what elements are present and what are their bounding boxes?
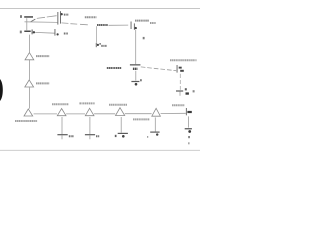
- dark blob at bus row transformer: [187, 111, 191, 113]
- label F far right of ground R: [193, 90, 195, 92]
- label above T5: [79, 102, 94, 104]
- load triangle T4: [57, 109, 66, 116]
- label F above blob R: [185, 88, 187, 90]
- label r left of G6: [115, 135, 117, 137]
- label F below vC end: [101, 45, 106, 47]
- dashed wire T1 out seg2: [70, 23, 77, 25]
- label 10MVA F: [97, 24, 108, 26]
- node R dark mark a: [179, 67, 182, 69]
- transformer T1 bar a: [56, 12, 59, 25]
- wire vA node A down: [26, 18, 28, 30]
- node M bus bar: [130, 64, 141, 65]
- wire vF dashed seg3: [179, 86, 181, 90]
- label 1.5kVA F left of node M: [107, 67, 122, 69]
- wire below T5: [89, 117, 91, 134]
- wire vF dashed seg1: [179, 74, 181, 78]
- label F at ground M: [140, 79, 142, 81]
- wire w4 to T2: [109, 24, 129, 26]
- wire w2 to T1: [25, 21, 58, 24]
- wire below T7: [154, 117, 156, 131]
- ground bar G6: [118, 133, 128, 134]
- label 2.5 MVA at T2: [36, 82, 49, 84]
- label r at vC end: [99, 43, 101, 45]
- label ar faint at T2: [150, 22, 156, 24]
- wire vG down to ground: [188, 116, 190, 127]
- transformer T2 bar b: [133, 23, 136, 29]
- transformer bar at node B: [31, 30, 34, 35]
- dark blob at node R ground: [186, 92, 189, 94]
- transformer T2 bar a: [130, 22, 133, 30]
- label 115kVAr: [85, 16, 97, 18]
- load triangle T7: [152, 108, 161, 116]
- load triangle T3: [24, 109, 33, 116]
- label above T7: [172, 104, 184, 106]
- ground stub G5: [89, 135, 91, 139]
- comma mark right of G6: [147, 136, 148, 138]
- label 4r end of w3: [64, 33, 68, 35]
- ground bar bottom right: [185, 128, 192, 129]
- ground dot G6: [122, 135, 125, 138]
- frame bottom rule: [0, 149, 200, 151]
- ground bar G5: [85, 134, 95, 135]
- ground bar at node R: [176, 90, 183, 91]
- label F on vD: [143, 37, 145, 39]
- load triangle T1: [25, 53, 34, 60]
- wire T1 to T2: [29, 60, 31, 80]
- label 4r at G5: [96, 135, 100, 137]
- dashed wire T1 out seg1: [62, 22, 69, 25]
- dashed wire M to R seg4: [160, 68, 165, 71]
- node A bus bar: [24, 16, 33, 18]
- bus wire T6 to T7: [125, 113, 152, 115]
- wire w3 from node B: [35, 31, 54, 34]
- label ar at T1: [64, 14, 69, 16]
- transformer bar at vC end: [95, 43, 98, 47]
- label 1.5kVA F above node R: [170, 59, 197, 61]
- wire vF dashed seg2: [179, 80, 181, 84]
- bus wire T3 to T4: [34, 113, 57, 115]
- dashed wire M to R seg5: [167, 69, 172, 72]
- wire below T6: [120, 117, 122, 133]
- junction dot at T2: [135, 27, 137, 29]
- dashed wire M to R seg2: [147, 67, 152, 70]
- wire vE below node M: [135, 71, 137, 81]
- label 185kVA 480V below T3: [15, 120, 37, 122]
- transformer bar end of bus row: [185, 108, 188, 115]
- node R transformer bar: [176, 65, 179, 73]
- bus wire T7 to transformer: [161, 112, 186, 114]
- load triangle T2: [25, 80, 34, 87]
- junction dot at vC end: [97, 44, 99, 46]
- junction dot node B: [33, 31, 35, 33]
- label above T4: [52, 103, 69, 105]
- junction dot at T1: [60, 13, 62, 15]
- label 1.5kVA r at T2: [135, 20, 149, 22]
- transformer bar end of w3: [54, 29, 57, 36]
- wire T2 to T3: [28, 87, 30, 108]
- ground dot G7: [156, 133, 158, 135]
- node B bus bar: [24, 31, 30, 33]
- label below bus T6-T7: [133, 118, 149, 120]
- label r bottom right ground: [188, 136, 190, 138]
- label 7 at node A: [20, 15, 22, 18]
- load triangle T5: [85, 108, 94, 115]
- dashed wire T1 out seg3: [80, 23, 88, 26]
- label 4r at G4: [69, 135, 74, 137]
- dashed wire M to R seg1: [141, 66, 146, 69]
- ground stub at node R: [179, 92, 181, 96]
- ground bar G4: [57, 134, 67, 135]
- wire vB node B to triangle T1: [29, 35, 31, 53]
- junction dot end of w3: [57, 33, 59, 35]
- wire vC tap down: [95, 26, 97, 42]
- label MV under node M: [133, 68, 138, 70]
- frame top rule: [0, 8, 200, 10]
- wire w1b to T1: [47, 16, 57, 17]
- ground dot under node M: [135, 83, 138, 86]
- ground dot bottom right: [188, 130, 191, 133]
- ground bar under node M: [131, 81, 139, 82]
- bus wire T5 to T6: [94, 113, 115, 115]
- ground bar G7: [150, 132, 159, 133]
- dashed wire M to R seg3: [154, 67, 159, 70]
- label 7 at node B: [20, 31, 22, 34]
- black clip mark at left edge: [0, 79, 3, 101]
- switch SW1 blade: [31, 19, 36, 22]
- faint speck below r: [188, 142, 190, 144]
- wire vD feeder T2 down: [135, 30, 137, 64]
- wire w1a to T1: [37, 17, 45, 18]
- bus wire T4 to T5: [66, 113, 85, 115]
- label 2.5 MVA at T1: [36, 55, 49, 57]
- transformer T1 bar b: [59, 11, 62, 23]
- ground stub G4: [61, 135, 63, 139]
- load triangle T6: [116, 108, 125, 116]
- dashed wire M to R seg6: [173, 69, 176, 71]
- wire below T4: [61, 117, 63, 134]
- node R dark mark b: [180, 70, 184, 72]
- label above T6: [109, 104, 127, 106]
